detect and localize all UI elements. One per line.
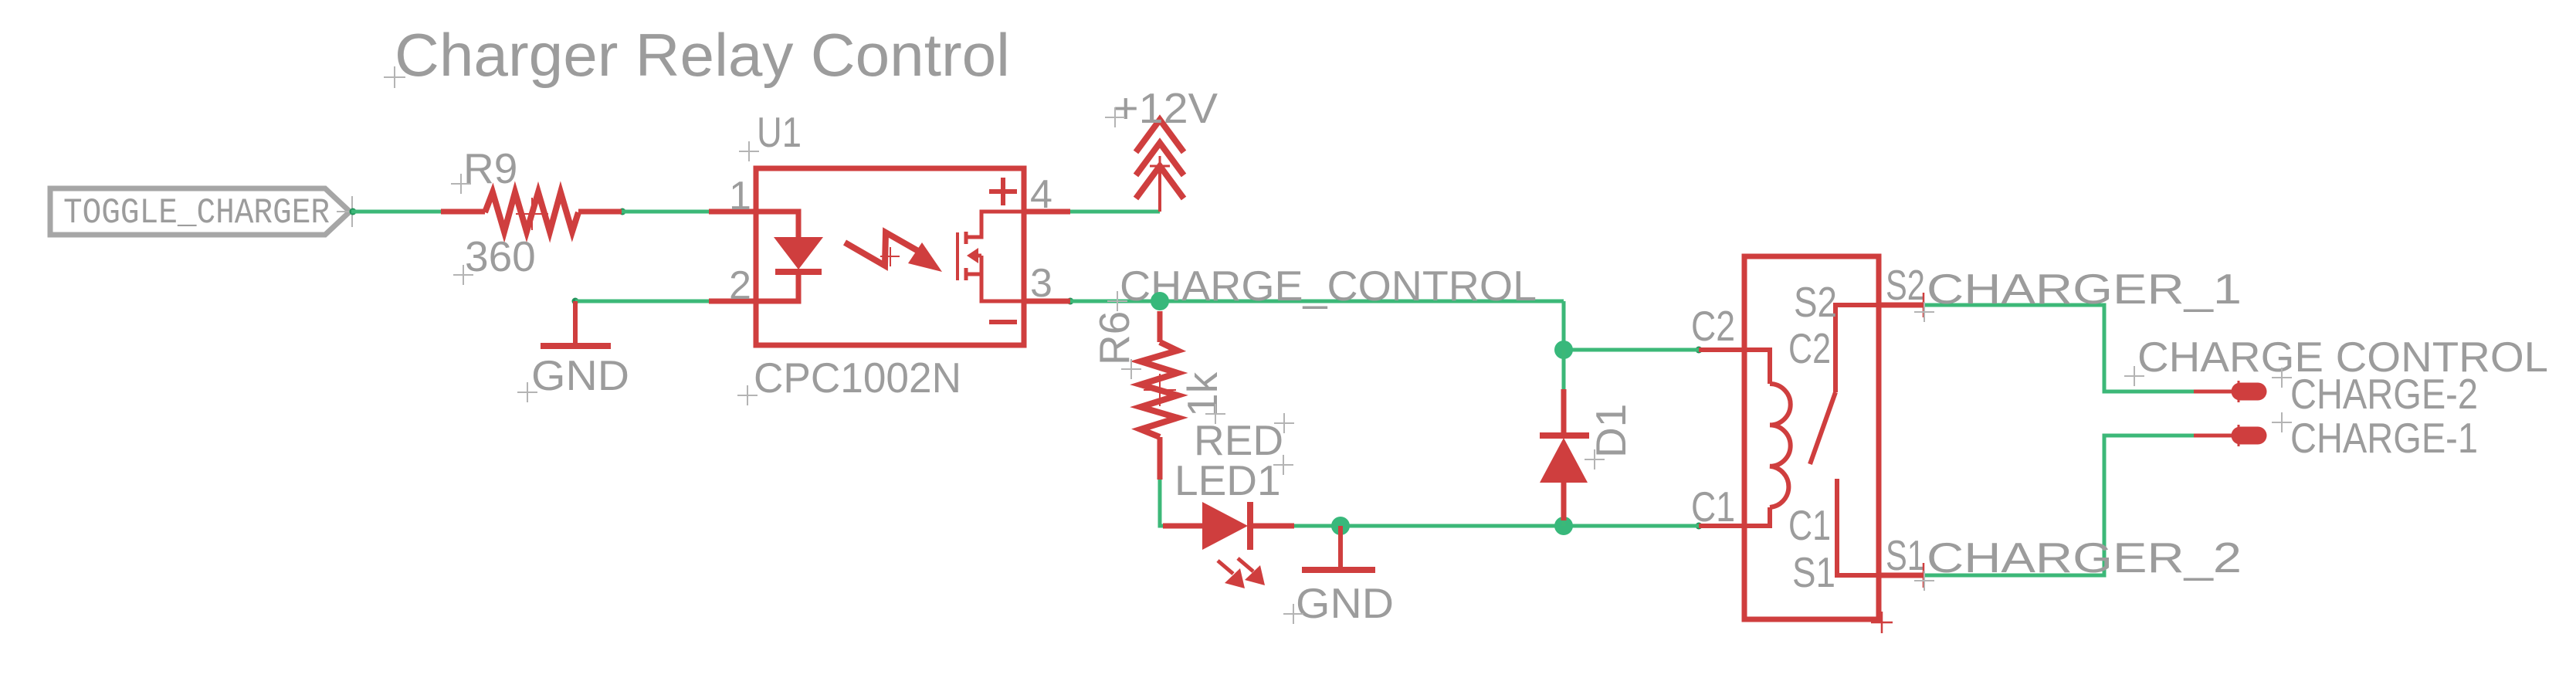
resistor R9	[441, 192, 622, 232]
wire R9 to U1 pin 1	[622, 210, 709, 214]
svg-text:C1: C1	[1788, 501, 1831, 549]
svg-text:CHARGE-1: CHARGE-1	[2290, 414, 2478, 462]
svg-text:+12V: +12V	[1113, 84, 1218, 132]
cross CHARGE_CONTROL origin	[1107, 291, 1127, 311]
wire LED1 to relay C1	[1294, 524, 1701, 528]
LED LED1	[1163, 502, 1294, 550]
svg-text:CHARGER_2: CHARGER_2	[1927, 534, 2242, 581]
optocoupler U1 pin leads	[709, 212, 1070, 301]
svg-text:CHARGE_CONTROL: CHARGE_CONTROL	[1120, 262, 1537, 310]
wire to relay C2	[1564, 348, 1699, 352]
svg-text:U1: U1	[757, 108, 802, 156]
junction at R6 top	[1151, 292, 1169, 310]
U1 minus mark	[989, 320, 1017, 324]
ground GND (left)	[541, 301, 611, 346]
cross at flag tip	[337, 196, 368, 227]
junction at D1 top	[1554, 341, 1573, 359]
pin CHARGE-1 pad	[2240, 427, 2258, 445]
junction at GND2	[1331, 517, 1350, 535]
svg-text:3: 3	[1030, 261, 1052, 306]
svg-text:GND: GND	[531, 351, 629, 399]
cross RED origin	[1274, 413, 1294, 433]
svg-text:360: 360	[465, 232, 536, 280]
svg-text:S2: S2	[1794, 278, 1837, 326]
pin CHARGE-2 cross	[2229, 381, 2249, 402]
cross 1k origin	[1205, 404, 1225, 424]
U1 plus mark	[989, 178, 1017, 205]
pin CHARGE-2 pad	[2240, 383, 2258, 401]
U1 internal LED	[756, 212, 822, 301]
R9 origin cross	[516, 198, 548, 230]
wire endpoint dots	[350, 208, 1703, 530]
cross 360 origin	[453, 265, 473, 285]
svg-text:C2: C2	[1788, 324, 1831, 372]
cross GND2 origin	[1283, 604, 1303, 624]
svg-text:R6: R6	[1090, 311, 1138, 365]
cross GND origin	[517, 382, 537, 402]
title origin cross	[384, 66, 405, 88]
supply +12V	[1136, 120, 1184, 212]
wire relay S1 lead	[1879, 573, 1924, 578]
svg-text:CPC1002N: CPC1002N	[754, 354, 961, 402]
svg-text:S1: S1	[1792, 548, 1835, 596]
svg-text:CHARGE-2: CHARGE-2	[2290, 370, 2478, 418]
svg-text:S2: S2	[1886, 261, 1925, 309]
svg-text:GND: GND	[1296, 579, 1394, 627]
wire CHARGER_1 net	[1924, 305, 2194, 392]
wire U1 pin2 to GND	[575, 300, 709, 303]
svg-text:Charger Relay Control: Charger Relay Control	[395, 21, 1010, 89]
cross CHARGE CONTROL origin	[2124, 366, 2144, 386]
svg-text:1: 1	[729, 174, 751, 219]
cross R9 origin	[451, 174, 471, 194]
U1 light arrow	[845, 232, 942, 272]
pin CHARGE-1 lead	[2194, 434, 2235, 438]
svg-text:CHARGER_1: CHARGER_1	[1927, 265, 2242, 313]
pin cross S1	[1923, 563, 1925, 588]
svg-text:S1: S1	[1886, 531, 1925, 579]
cross CHARGE-1 origin	[2272, 412, 2292, 432]
wire TOGGLE_CHARGER to R9	[351, 210, 441, 214]
U1 internal MOSFET	[958, 212, 1024, 301]
svg-text:C1: C1	[1691, 483, 1735, 531]
pin CHARGE-1 cross	[2229, 425, 2249, 446]
wire relay S2 lead	[1879, 303, 1924, 308]
cross CHARGER_2 origin	[1914, 571, 1934, 591]
cross D1 origin	[1585, 449, 1605, 470]
diode D1	[1540, 350, 1589, 526]
wire CHARGE_CONTROL corner down	[1562, 301, 1566, 350]
wire CHARGE_CONTROL net: pin3 to corner	[1070, 300, 1564, 303]
svg-text:1k: 1k	[1178, 371, 1226, 417]
resistor R6 (vertical)	[1141, 311, 1178, 480]
cross R6 origin	[1121, 359, 1141, 379]
relay origin cross	[1871, 612, 1893, 633]
ground GND (middle)	[1302, 526, 1375, 570]
R6 origin cross	[1144, 374, 1176, 406]
relay K1 box	[1744, 256, 1879, 619]
LED1 light arrows	[1218, 558, 1265, 588]
svg-text:TOGGLE_CHARGER: TOGGLE_CHARGER	[63, 193, 330, 233]
cross LED1 origin	[1273, 455, 1293, 475]
svg-text:4: 4	[1030, 172, 1052, 217]
pin CHARGE-2 lead	[2194, 390, 2235, 394]
junction at D1 bottom	[1554, 517, 1573, 535]
pin cross S2	[1923, 293, 1925, 317]
svg-text:R9: R9	[463, 144, 517, 192]
net flag TOGGLE_CHARGER	[50, 188, 350, 235]
cross U1 origin	[739, 141, 759, 161]
svg-text:C2: C2	[1691, 302, 1735, 350]
wire CHARGER_2 net	[1924, 436, 2194, 575]
relay switch	[1810, 305, 1879, 575]
cross +12V origin	[1105, 107, 1125, 127]
wire R6 to LED1	[1160, 480, 1163, 526]
cross CPC1002N origin	[737, 385, 758, 405]
cross CHARGER_1 origin	[1914, 302, 1934, 322]
optocoupler U1 box	[756, 168, 1024, 345]
cross CHARGE-2 origin	[2272, 368, 2292, 388]
U1 origin cross	[880, 247, 900, 266]
svg-text:2: 2	[729, 263, 751, 308]
svg-text:LED1: LED1	[1174, 456, 1281, 504]
relay coil	[1699, 350, 1791, 526]
wire U1 pin4 to +12V	[1070, 210, 1160, 214]
